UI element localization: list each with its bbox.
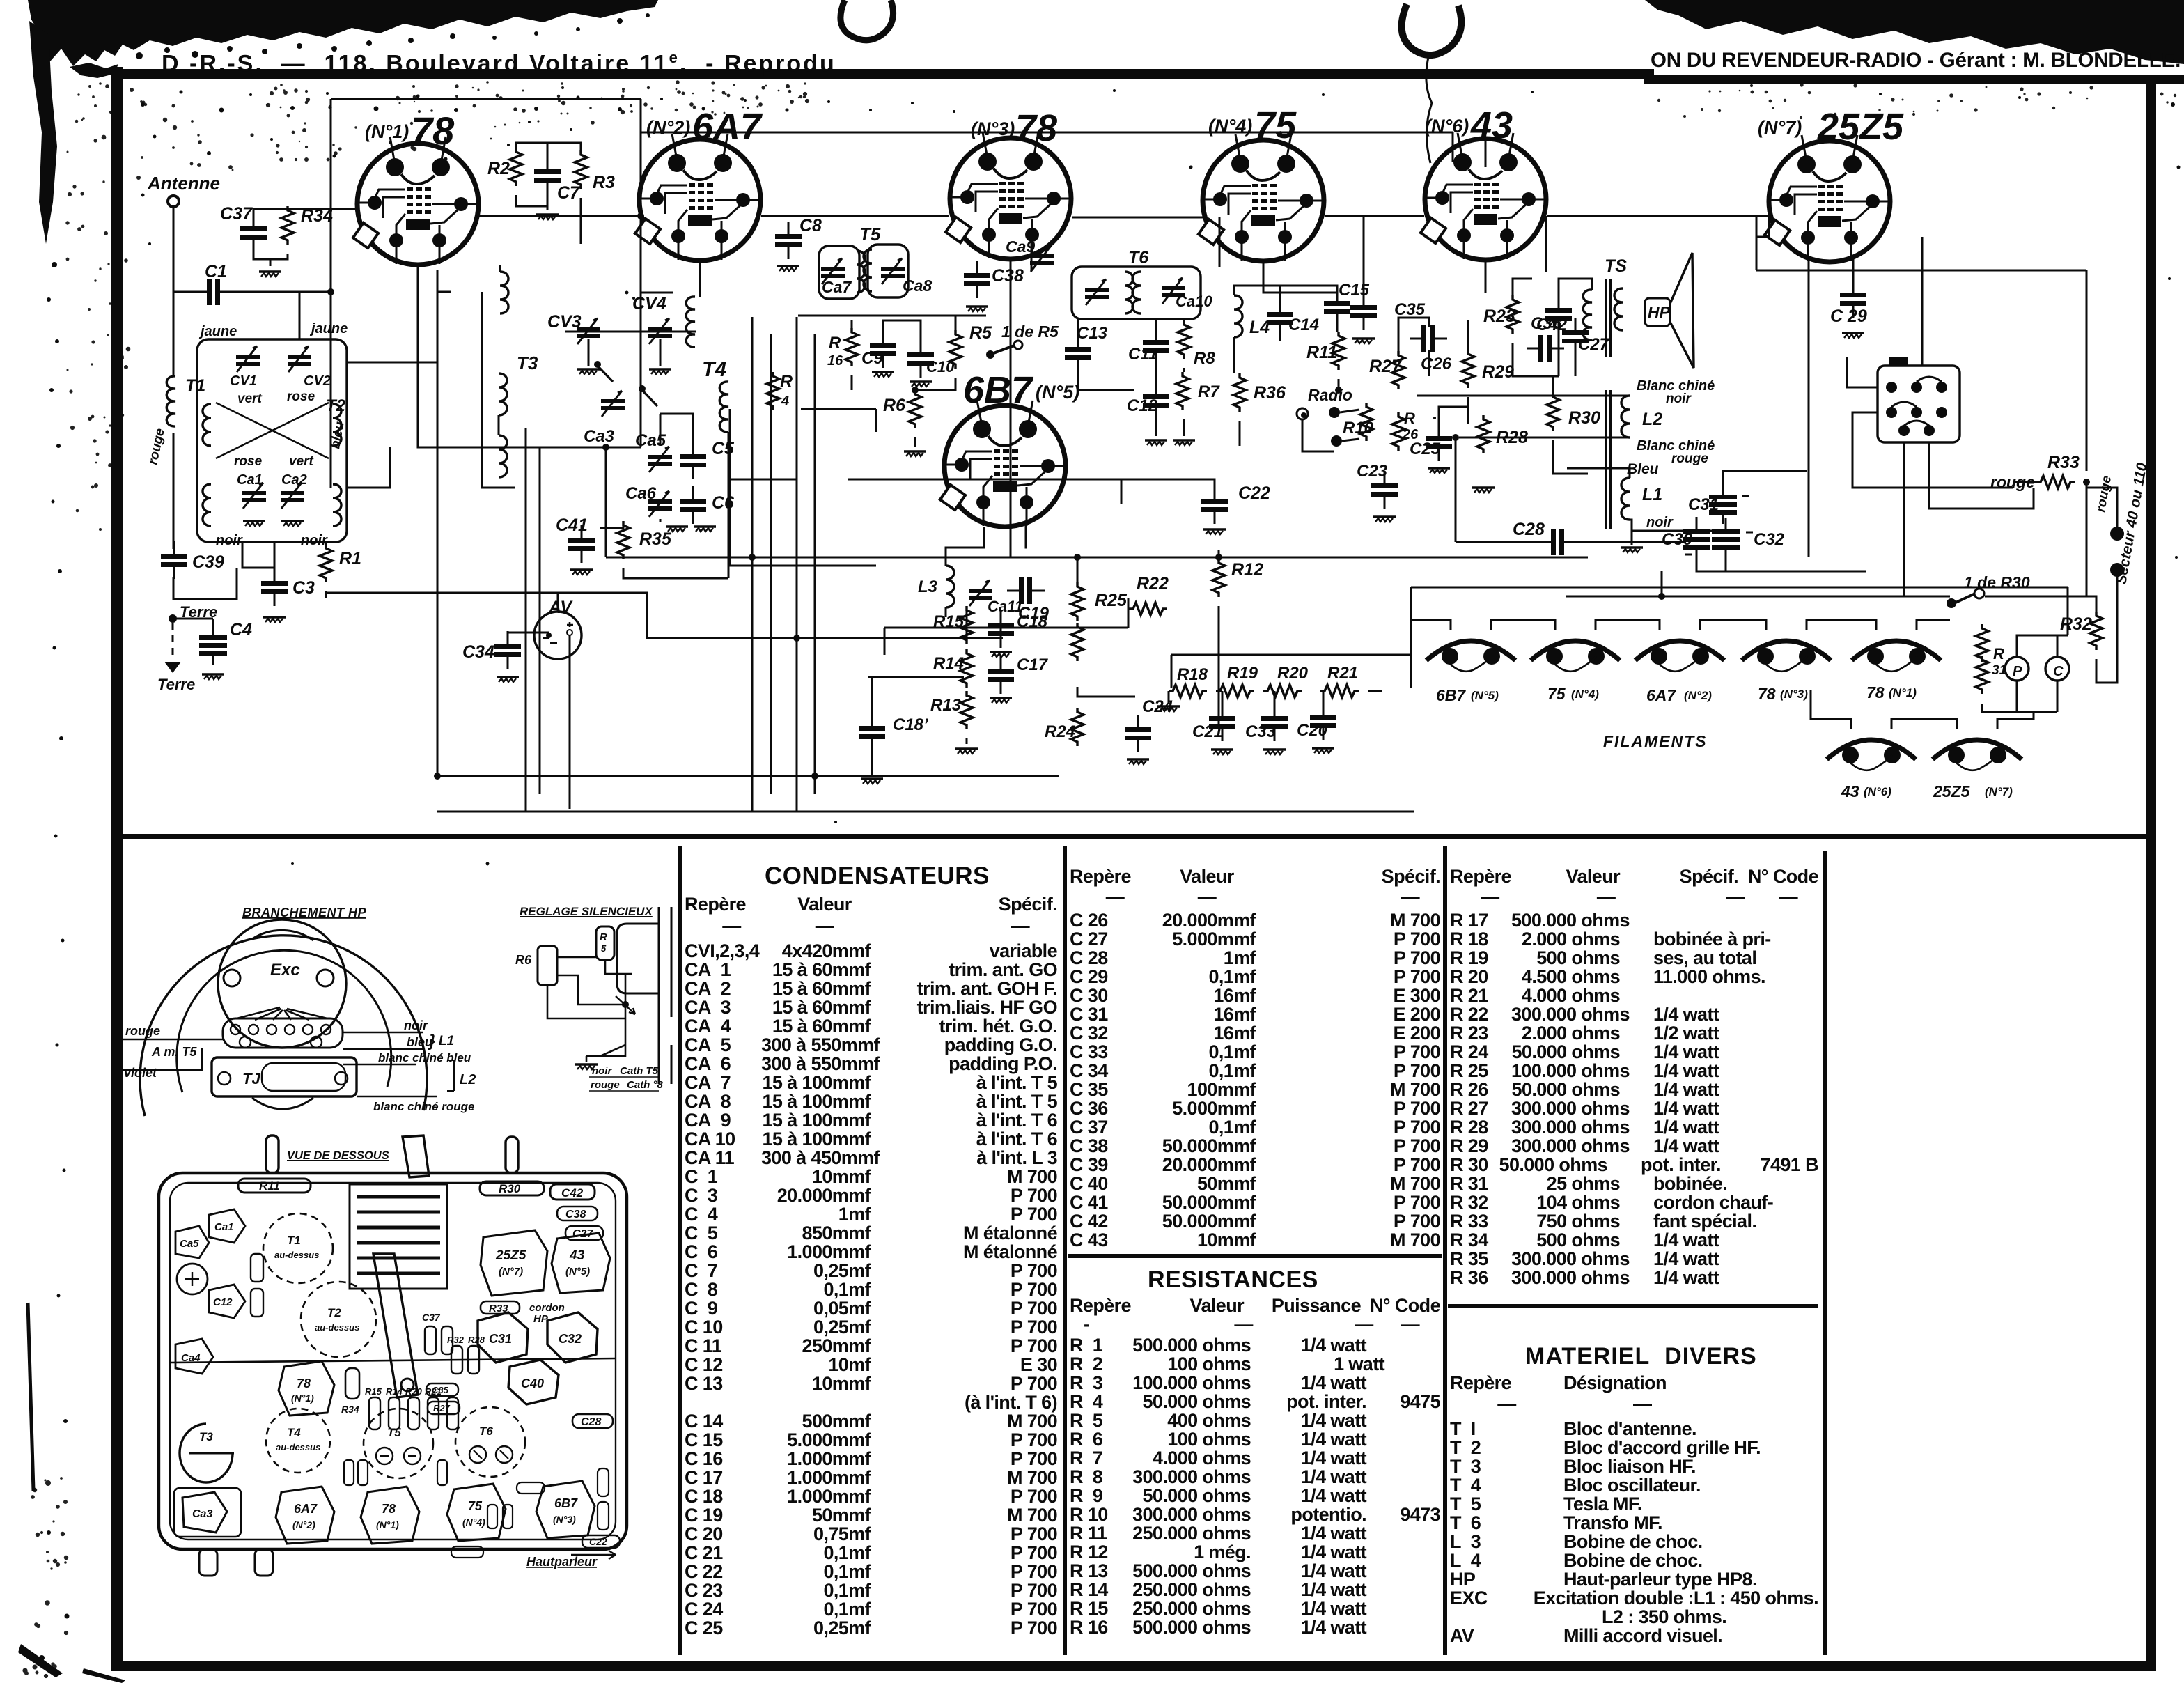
svg-text:6B7: 6B7	[963, 369, 1034, 411]
resistor R7	[1176, 372, 1189, 410]
svg-text:C25: C25	[1410, 440, 1441, 458]
svg-text:R33: R33	[2047, 453, 2080, 472]
wires C30 C31 C32	[1696, 471, 1866, 571]
svg-text:C26: C26	[1421, 355, 1452, 373]
wires C37 R34 to tube1	[253, 206, 357, 266]
capacitor C18b	[859, 713, 885, 751]
resistor R25 tall	[1071, 582, 1084, 621]
svg-text:Ca5: Ca5	[635, 431, 666, 450]
svg-text:C12: C12	[213, 1296, 233, 1308]
svg-text:R: R	[780, 372, 793, 391]
L3 block outline	[946, 557, 989, 617]
svg-text:Ca2: Ca2	[281, 472, 307, 488]
antenna terminal	[168, 196, 179, 207]
T1 dashed circle	[263, 1213, 333, 1283]
capacitor C3	[261, 568, 288, 606]
svg-text:78: 78	[382, 1502, 396, 1516]
svg-text:75: 75	[468, 1499, 483, 1513]
speaker mounting holes	[224, 970, 240, 986]
resistor R28	[1477, 415, 1490, 453]
trimmer CV1	[236, 346, 260, 372]
capacitor C35	[1350, 293, 1377, 330]
resistor R1	[320, 544, 332, 582]
svg-text:T3: T3	[517, 352, 538, 373]
ground C23	[1373, 517, 1396, 522]
svg-text:TS: TS	[1605, 256, 1627, 276]
svg-text:rose: rose	[234, 454, 263, 469]
C42 small box	[550, 1184, 595, 1200]
trimmer CV4	[648, 318, 672, 344]
ground C25	[1428, 468, 1450, 473]
svg-text:BRANCHEMENT HP: BRANCHEMENT HP	[242, 906, 366, 920]
reglage chassis edge	[659, 907, 671, 1084]
svg-text:rouge: rouge	[591, 1079, 620, 1091]
filament jumpers	[1411, 620, 1950, 630]
svg-text:FILAMENTS: FILAMENTS	[1603, 732, 1708, 750]
svg-text:R3: R3	[593, 173, 615, 192]
trimmer Ca11	[969, 580, 992, 606]
R33 bar	[481, 1301, 520, 1314]
resistor R27	[1392, 351, 1405, 389]
resistor R21	[1320, 685, 1359, 697]
svg-text:4: 4	[781, 394, 789, 409]
svg-text:C12: C12	[1127, 396, 1158, 415]
R11 top bar	[238, 1179, 311, 1193]
svg-text:rose: rose	[287, 389, 315, 404]
svg-text:T5: T5	[859, 224, 881, 245]
svg-text:R22: R22	[1137, 574, 1169, 594]
resistances table	[1070, 1296, 1440, 1637]
capacitor C1	[195, 279, 233, 305]
ground under C3	[263, 617, 286, 622]
svg-text:T4: T4	[702, 358, 726, 381]
svg-text:C41: C41	[556, 515, 588, 535]
resistor R11	[1332, 332, 1345, 370]
resistor R26	[1392, 412, 1405, 451]
svg-text:5: 5	[601, 943, 607, 954]
svg-text:Antenne: Antenne	[147, 173, 220, 194]
svg-text:L3: L3	[918, 577, 938, 596]
svg-text:C13: C13	[1077, 324, 1108, 343]
svg-text:R27: R27	[433, 1403, 451, 1413]
MATERIEL DIVERS title	[1525, 1343, 1757, 1370]
svg-text:(N°4): (N°4)	[1571, 688, 1599, 701]
svg-text:AV: AV	[548, 598, 573, 617]
tube U4 75	[1199, 134, 1324, 261]
coil T4 upper	[686, 297, 695, 347]
CONDENSATEURS title	[765, 862, 990, 890]
svg-text:C: C	[2053, 664, 2064, 679]
svg-text:C18: C18	[1017, 612, 1048, 631]
ground C22	[1203, 529, 1226, 534]
svg-text:T6: T6	[1128, 248, 1149, 267]
dashed wire to earth	[172, 623, 174, 660]
wires selector	[1847, 357, 2034, 596]
long vertical bus left	[437, 270, 1059, 776]
svg-text:Ca1: Ca1	[237, 472, 263, 488]
svg-text:R20: R20	[1277, 664, 1309, 683]
svg-text:R12: R12	[1231, 560, 1263, 580]
capacitor C6	[680, 486, 706, 524]
filament tube 6B7	[1426, 641, 1515, 672]
trimmer Ca2	[281, 483, 304, 509]
header left text	[162, 49, 836, 77]
wires T6 cluster	[1078, 319, 1184, 436]
wires middle risers	[1364, 216, 1588, 474]
svg-text:blanc chiné rouge: blanc chiné rouge	[373, 1100, 474, 1113]
svg-text:(N°3): (N°3)	[1780, 688, 1808, 701]
Ca3 pentagon	[182, 1492, 227, 1533]
wires L1 L2	[1417, 396, 1727, 545]
svg-text:jaune: jaune	[309, 321, 348, 336]
svg-text:6A7: 6A7	[692, 106, 763, 148]
RESISTANCES title	[1148, 1266, 1318, 1294]
6A7 bottom blob	[276, 1487, 334, 1544]
svg-text:(N°2): (N°2)	[646, 117, 690, 138]
materiel divers rule	[1448, 1304, 1818, 1308]
svg-text:R: R	[600, 931, 607, 943]
svg-text:A m. T5: A m. T5	[151, 1045, 197, 1059]
svg-text:78: 78	[1015, 107, 1057, 149]
wires AV C34	[508, 593, 570, 809]
capacitor C32	[1712, 518, 1740, 559]
top grid bus wire	[331, 99, 1453, 488]
ground under R6	[904, 451, 926, 456]
svg-text:C35: C35	[1394, 300, 1426, 319]
ground L1	[1621, 548, 1643, 552]
wires 6B7 lower	[946, 525, 1135, 744]
capacitor C8	[775, 222, 802, 259]
resistor R4	[767, 372, 779, 410]
svg-text:}: }	[428, 1032, 435, 1050]
capacitor C14	[1267, 300, 1293, 337]
ground under C4	[202, 674, 224, 679]
Terre terminal	[169, 614, 177, 623]
svg-text:(N°5): (N°5)	[565, 1266, 590, 1278]
ground R13	[955, 749, 978, 754]
svg-text:R34: R34	[341, 1404, 359, 1415]
svg-text:R15: R15	[365, 1386, 382, 1397]
T5 dashed circle	[364, 1409, 433, 1478]
capacitor C39	[161, 541, 187, 579]
25Z5 tube blob	[481, 1230, 547, 1296]
svg-text:C35: C35	[432, 1385, 449, 1395]
svg-text:25Z5: 25Z5	[1933, 782, 1971, 800]
resistor R34	[281, 206, 294, 245]
svg-text:C37: C37	[220, 204, 253, 224]
svg-text:C15: C15	[1339, 281, 1370, 300]
svg-text:(N°1): (N°1)	[291, 1393, 314, 1404]
right wires + labels	[343, 1032, 437, 1096]
svg-text:(N°3): (N°3)	[971, 118, 1015, 139]
svg-text:T4: T4	[287, 1426, 301, 1439]
tube interconnect wires	[479, 138, 1769, 297]
C37 bars	[425, 1326, 436, 1354]
svg-text:78: 78	[1866, 683, 1885, 701]
svg-text:noir: noir	[1666, 391, 1692, 406]
svg-text:CV2: CV2	[304, 373, 331, 389]
capacitor C30	[1683, 518, 1710, 559]
svg-text:R35: R35	[639, 529, 672, 549]
svg-text:C22: C22	[589, 1536, 607, 1547]
svg-text:R32: R32	[2060, 614, 2092, 634]
ground under C7	[536, 215, 559, 219]
svg-text:6A7: 6A7	[294, 1502, 318, 1516]
wires meters	[1982, 624, 2068, 712]
wires under T2 block	[173, 542, 326, 599]
small bars bottom row	[344, 1460, 354, 1485]
T3 wires	[482, 265, 515, 488]
svg-text:T5: T5	[387, 1426, 401, 1439]
capacitor C38	[964, 261, 990, 298]
svg-text:rouge: rouge	[125, 1024, 160, 1038]
middle vertical wire bundle	[526, 317, 815, 812]
divider line between schematic and tables	[118, 834, 2155, 839]
svg-text:(N°3): (N°3)	[553, 1514, 576, 1525]
svg-text:R11: R11	[1306, 343, 1337, 362]
svg-text:Ca6: Ca6	[625, 484, 657, 503]
grounds T6 area	[1145, 440, 1167, 445]
tube U3 78	[946, 132, 1071, 259]
svg-text:R8: R8	[1194, 349, 1215, 368]
svg-text:(N°2): (N°2)	[1684, 689, 1712, 702]
resistances rule	[1068, 1254, 1442, 1258]
scan blob top-right	[1645, 0, 2184, 64]
C27 small box	[565, 1226, 603, 1240]
svg-text:C30: C30	[1662, 530, 1693, 549]
capacitor C10	[907, 340, 934, 378]
ground R28	[1472, 488, 1495, 493]
svg-text:C6: C6	[712, 493, 735, 513]
svg-text:(N°7): (N°7)	[1758, 117, 1802, 138]
svg-text:R2: R2	[487, 159, 510, 178]
svg-text:R18: R18	[1177, 665, 1208, 684]
ground C34	[497, 677, 519, 682]
capacitor C7	[534, 157, 561, 194]
field coil core	[1606, 390, 1611, 529]
R34 bar	[345, 1368, 359, 1399]
svg-text:1 de R30: 1 de R30	[1964, 573, 2030, 591]
condensateurs table middle	[1070, 866, 1440, 1250]
svg-text:43: 43	[1470, 104, 1513, 146]
capacitor C13	[1065, 334, 1091, 372]
resistor R12	[1212, 559, 1225, 597]
electrolytic polarity marks	[1685, 496, 1753, 554]
svg-text:noir: noir	[301, 533, 328, 548]
wires L4 C14 C15 R11	[1234, 286, 1339, 446]
resistor row small bars	[369, 1397, 380, 1429]
78 bottom blob	[361, 1487, 419, 1544]
resistor R5	[949, 330, 962, 369]
svg-text:R29: R29	[1482, 362, 1514, 382]
svg-text:Ca1: Ca1	[214, 1221, 234, 1233]
wires chain caps	[1222, 691, 1323, 704]
capacitor C36	[1527, 335, 1564, 362]
small switch boxes left	[251, 1254, 263, 1282]
svg-text:(N°1): (N°1)	[365, 121, 409, 142]
svg-text:T1: T1	[185, 376, 205, 396]
grounds under C5 C6	[666, 527, 688, 532]
svg-text:HP: HP	[1648, 303, 1671, 321]
svg-text:25Z5: 25Z5	[1817, 106, 1904, 148]
wire CV3 CV4	[565, 332, 696, 366]
rect left bottom	[174, 1488, 241, 1537]
svg-text:T3: T3	[199, 1430, 213, 1443]
svg-text:Terre: Terre	[157, 676, 195, 693]
svg-text:C32: C32	[1754, 530, 1785, 549]
wires tube 43 to output	[1485, 216, 1592, 376]
svg-text:au-dessus: au-dessus	[315, 1322, 359, 1333]
svg-text:C5: C5	[712, 439, 735, 458]
svg-text:vert: vert	[289, 454, 314, 469]
ground under Ca1 Ca2	[243, 521, 265, 526]
ground CV3 CV4	[577, 369, 600, 374]
earth arrow	[164, 662, 181, 673]
tube U1 78	[353, 137, 478, 265]
switch Ca5	[642, 390, 657, 406]
capacitor C37	[240, 214, 267, 251]
condensateurs table left	[685, 894, 1057, 1638]
ground C35	[1352, 339, 1375, 343]
HP horn	[1670, 253, 1694, 368]
svg-text:T1: T1	[287, 1234, 301, 1247]
ground C18	[990, 652, 1012, 657]
svg-text:6A7: 6A7	[1646, 686, 1676, 704]
grounds C9 C10	[872, 372, 894, 377]
chassis outline	[159, 1173, 627, 1549]
meter C	[2045, 657, 2069, 681]
svg-text:C8: C8	[799, 216, 822, 235]
trimmer CV2	[288, 346, 311, 372]
svg-text:(N°5): (N°5)	[1471, 689, 1499, 702]
wire tube3 cathode drop	[347, 237, 1031, 557]
scan blob top-left	[28, 0, 658, 66]
svg-text:C20: C20	[1297, 721, 1328, 740]
wire R33	[2013, 482, 2086, 596]
filament tube 25Z5	[1933, 740, 2022, 770]
svg-text:R32: R32	[447, 1335, 465, 1345]
main wire y856	[1566, 571, 2086, 596]
capacitor C24	[1125, 715, 1151, 752]
wire R6	[914, 437, 916, 447]
svg-text:C17: C17	[1017, 656, 1049, 674]
frame bottom border	[111, 1661, 2156, 1671]
HP speaker coil	[1614, 288, 1623, 330]
svg-text:C1: C1	[205, 262, 227, 281]
T3 transformer box	[212, 1057, 357, 1096]
svg-text:Ca8: Ca8	[903, 277, 932, 295]
wire antenna down	[173, 207, 175, 549]
speaker inner dome	[218, 920, 346, 1048]
R30 top bar	[480, 1181, 544, 1195]
trimmer Ca1	[242, 483, 266, 509]
ground under C38	[966, 307, 988, 311]
C35 C25 boxes	[426, 1383, 458, 1396]
resistor R19	[1216, 685, 1254, 697]
wires R2 C7 R3	[516, 143, 581, 244]
svg-text:R27: R27	[1369, 357, 1402, 376]
svg-text:6B7: 6B7	[554, 1496, 578, 1510]
paper crack line	[1426, 54, 1432, 163]
svg-text:R23: R23	[1483, 307, 1515, 326]
R32 R28 small	[451, 1346, 462, 1374]
svg-text:violet: violet	[124, 1066, 157, 1080]
coil L3	[946, 566, 954, 607]
table right border line	[1823, 851, 1827, 1655]
svg-text:L2: L2	[460, 1072, 476, 1087]
resistor R2	[510, 148, 522, 186]
capacitor C34	[494, 631, 521, 669]
wire above divider chain	[884, 628, 1411, 688]
resistor R16	[845, 328, 858, 366]
svg-text:C33: C33	[1245, 722, 1277, 741]
svg-text:(N°5): (N°5)	[1036, 382, 1079, 403]
svg-text:rouge: rouge	[146, 427, 168, 466]
wires 25Z5	[1756, 216, 1922, 557]
filament tube 43	[1827, 740, 1916, 770]
trimmer CV3	[577, 318, 600, 344]
svg-text:(N°7): (N°7)	[1985, 785, 2013, 798]
svg-text:REGLAGE SILENCIEUX: REGLAGE SILENCIEUX	[520, 905, 653, 918]
block T2 crossed coils	[216, 403, 329, 458]
svg-text:L2: L2	[1642, 410, 1662, 429]
svg-text:R: R	[1993, 645, 2004, 662]
svg-text:noir: noir	[404, 1018, 428, 1032]
resistor R31	[1976, 624, 1988, 662]
bottom half: T3 C clamp	[180, 1424, 233, 1482]
resistor chain R18	[1169, 685, 1207, 697]
svg-text:TJ: TJ	[242, 1070, 260, 1087]
svg-text:43: 43	[569, 1248, 585, 1263]
capacitor C42	[1545, 295, 1572, 333]
frame top border right segment	[1644, 75, 2184, 84]
right table R17-R36	[1450, 866, 1818, 1287]
table column separator line 1	[678, 846, 682, 1655]
T6 dashed circle	[455, 1407, 525, 1477]
wire C18b	[871, 677, 873, 776]
svg-text:78: 78	[411, 109, 455, 153]
svg-text:R14: R14	[386, 1386, 403, 1397]
table column separator line 3	[1443, 846, 1447, 1655]
svg-text:C9: C9	[861, 349, 883, 368]
capacitor C17	[988, 656, 1014, 694]
T2 dashed circle	[301, 1282, 376, 1357]
svg-text:CV4: CV4	[632, 294, 666, 313]
capacitor C20	[1310, 702, 1336, 740]
43 tube blob	[552, 1233, 610, 1293]
svg-text:T6: T6	[479, 1425, 493, 1438]
reglage R5 trimmer box	[596, 926, 614, 960]
svg-text:noir: noir	[216, 533, 243, 548]
svg-text:Ca5: Ca5	[180, 1238, 199, 1250]
svg-text:Ca3: Ca3	[192, 1508, 212, 1520]
svg-text:R20: R20	[405, 1386, 423, 1397]
svg-text:C42: C42	[561, 1186, 584, 1200]
svg-text:C3: C3	[292, 578, 315, 598]
MF can T5 a	[819, 246, 859, 299]
T6 MF transformer block	[1072, 267, 1201, 319]
svg-text:C39: C39	[192, 552, 224, 572]
trimmer Ca9	[1030, 246, 1054, 272]
resistor R10	[1360, 403, 1373, 441]
svg-text:Cath T5: Cath T5	[620, 1065, 659, 1077]
wire C28	[1456, 437, 1685, 542]
svg-text:R24: R24	[1045, 722, 1075, 741]
speaker outer ring	[140, 936, 427, 1116]
svg-text:rouge: rouge	[1671, 451, 1708, 466]
svg-text:C34: C34	[462, 642, 494, 662]
svg-text:C31: C31	[489, 1332, 512, 1346]
